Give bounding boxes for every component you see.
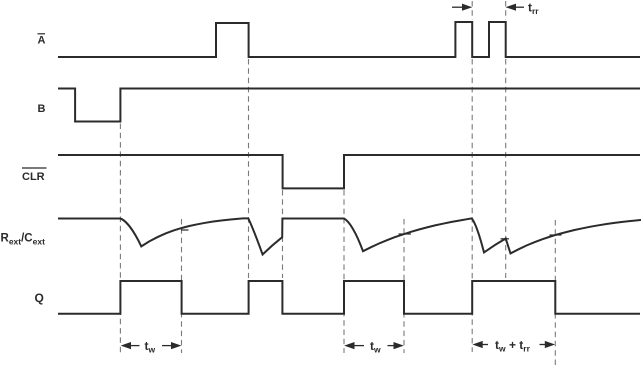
dashed timing line at first narrow A pulse fall x=472.2 (lower)	[471, 59, 473, 352]
annotation tw second	[344, 342, 404, 349]
svg-text:CLR: CLR	[22, 171, 45, 183]
dashed timing line at second narrow A pulse fall x=505.7 (upper)	[505, 1, 507, 20]
waveform Rext/Cext	[58, 218, 641, 254]
waveform Q	[58, 281, 640, 314]
waveform A-bar	[58, 22, 640, 57]
dashed timing line at CLR falling edge x=282.5	[282, 190, 284, 278]
svg-text:A: A	[38, 35, 46, 47]
svg-text:B: B	[38, 103, 46, 115]
dashed timing line end of tw+trr x=555.3	[554, 220, 556, 368]
dashed timing line end of first tw x=181.5	[181, 219, 183, 353]
dashed timing line at A pulse falling edge x=248.5	[248, 59, 250, 278]
dashed timing line at second narrow A pulse fall x=505.7 (lower)	[505, 59, 507, 278]
annotation tw first	[121, 342, 182, 349]
annotation trr top arrows	[452, 4, 524, 11]
svg-text:Q: Q	[35, 291, 44, 305]
threshold tick on curve at x=181.5	[181, 229, 189, 231]
annotation tw + trr	[472, 341, 555, 348]
dashed timing line end of second tw x=404	[403, 219, 405, 353]
waveform B	[58, 89, 640, 122]
threshold tick on curve at x=404	[399, 233, 412, 235]
threshold tick on curve at x=555.3	[550, 234, 562, 236]
dashed timing line at CLR rising edge x=344	[343, 190, 345, 353]
dashed timing line at B rising edge x=120.4	[119, 124, 121, 354]
dashed timing line at first narrow A pulse fall x=472.2 (upper)	[471, 1, 473, 20]
threshold tick on curve at x=505.7	[501, 238, 510, 240]
waveform CLR-bar	[58, 155, 640, 188]
